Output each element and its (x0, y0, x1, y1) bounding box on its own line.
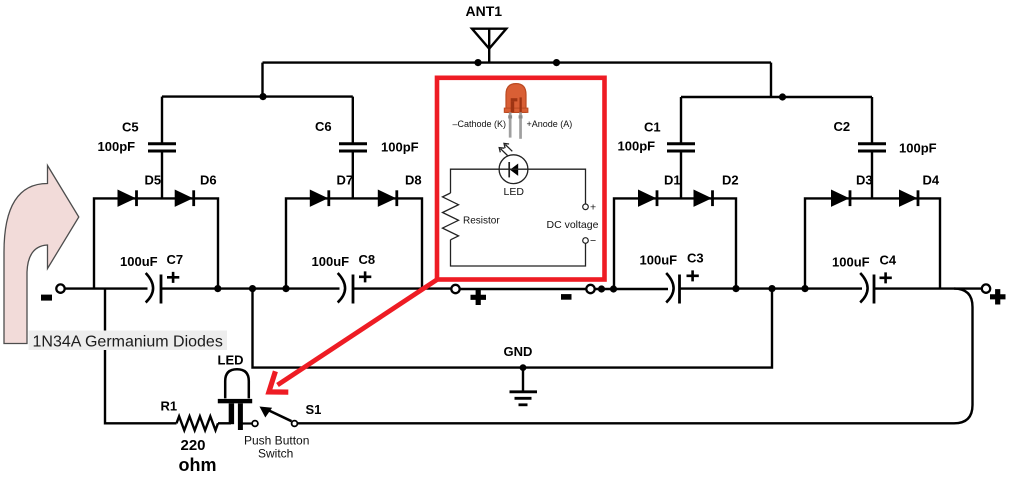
diode D7 (310, 173, 353, 207)
cell 4 frame wires (805, 198, 940, 288)
node rail 601 (598, 285, 605, 292)
svg-text:Push Button: Push Button (244, 434, 309, 448)
capacitor C4 (832, 253, 897, 304)
svg-text:D8: D8 (405, 173, 422, 188)
inset: resistor (443, 193, 501, 240)
node on top rail right (553, 59, 560, 66)
svg-text:D6: D6 (200, 173, 217, 188)
svg-text:DC voltage: DC voltage (547, 219, 599, 231)
red callout box (437, 78, 605, 280)
node rail 805 (801, 285, 808, 292)
svg-text:D2: D2 (722, 173, 739, 188)
diode D1 (639, 173, 681, 207)
svg-text:−: − (590, 235, 596, 247)
inset: LED symbol (499, 143, 528, 198)
svg-text:100uF: 100uF (312, 254, 350, 269)
diode D5 (118, 173, 161, 207)
node right feed (779, 93, 786, 100)
cell 1 frame wires (94, 198, 218, 288)
LED (indicator) (218, 353, 253, 431)
terminal mid plus (451, 285, 486, 305)
cell 3 frame wires (614, 198, 736, 288)
svg-text:–Cathode (K): –Cathode (K) (453, 119, 507, 129)
inset: DC voltage port (547, 202, 599, 248)
node rail 286 (282, 285, 289, 292)
svg-text:D3: D3 (856, 173, 873, 188)
node on top rail left (474, 59, 481, 66)
diode D3 (832, 173, 873, 207)
capacitor C1 (618, 97, 696, 198)
svg-text:C5: C5 (122, 120, 139, 135)
svg-text:+Anode (A): +Anode (A) (527, 119, 573, 129)
node rail 252 (249, 285, 256, 292)
pink block arrow (4, 166, 79, 344)
svg-text:C2: C2 (834, 119, 851, 134)
svg-text:100uF: 100uF (832, 255, 870, 270)
svg-text:100pF: 100pF (381, 140, 419, 155)
svg-text:C7: C7 (167, 252, 184, 267)
svg-text:220: 220 (181, 437, 206, 454)
svg-text:C6: C6 (315, 119, 332, 134)
diode D6 (175, 173, 216, 207)
capacitor C8 (312, 252, 376, 304)
svg-text:ANT1: ANT1 (466, 3, 503, 19)
svg-text:1N34A Germanium Diodes: 1N34A Germanium Diodes (33, 334, 223, 351)
switch S1 (244, 402, 321, 461)
wire right feed (681, 96, 872, 98)
highlight 1N34A note (29, 331, 228, 351)
capacitor C3 (640, 251, 704, 304)
svg-text:100pF: 100pF (899, 141, 937, 156)
svg-text:100uF: 100uF (640, 253, 678, 268)
ground symbol (504, 344, 538, 405)
svg-text:C1: C1 (644, 120, 661, 135)
svg-text:+: + (590, 202, 596, 214)
terminal mid minus (561, 285, 595, 297)
svg-text:100pF: 100pF (98, 139, 136, 154)
inset: LED component photo (453, 84, 573, 139)
cell 2 frame wires (286, 198, 422, 288)
svg-text:LED: LED (504, 186, 525, 198)
svg-text:ohm: ohm (179, 455, 217, 475)
svg-text:S1: S1 (306, 402, 322, 417)
bottom rail segments (65, 287, 148, 289)
diode D8 (378, 173, 421, 207)
svg-text:100uF: 100uF (120, 254, 158, 269)
red arrow to LED (269, 280, 437, 393)
svg-text:D5: D5 (145, 173, 162, 188)
svg-text:GND: GND (504, 344, 533, 359)
node rail 736 (732, 285, 739, 292)
svg-text:D4: D4 (923, 173, 940, 188)
antenna ANT1 (466, 3, 507, 63)
svg-text:D7: D7 (337, 173, 354, 188)
terminal right plus (982, 284, 1006, 304)
wire GND branch (253, 289, 773, 368)
capacitor C2 (834, 97, 937, 198)
svg-text:R1: R1 (161, 399, 178, 414)
svg-text:C3: C3 (687, 251, 704, 266)
wire bottom-left loop (105, 289, 177, 424)
svg-text:D1: D1 (664, 173, 681, 188)
svg-text:LED: LED (218, 353, 244, 368)
svg-text:Switch: Switch (258, 447, 293, 461)
capacitor C7 (120, 252, 183, 304)
svg-text:Resistor: Resistor (463, 216, 500, 227)
svg-text:100pF: 100pF (618, 139, 656, 154)
node GND (520, 364, 527, 371)
wire right riser to top rail (770, 63, 772, 97)
diode D4 (900, 173, 940, 207)
svg-text:C4: C4 (880, 253, 897, 268)
capacitor C5 (98, 97, 177, 199)
node rail 613 (610, 285, 617, 292)
terminal left minus (41, 284, 65, 297)
wire resistor to LED (218, 422, 231, 424)
capacitor C6 (315, 97, 419, 199)
node left feed (259, 93, 266, 100)
resistor R1 (161, 399, 218, 476)
wire top rail (263, 61, 772, 63)
wire left riser to top rail (261, 63, 263, 97)
svg-text:C8: C8 (359, 252, 376, 267)
diode D2 (694, 173, 739, 207)
wire bottom return (298, 289, 973, 424)
node rail 217 (214, 285, 221, 292)
node rail 772 (768, 285, 775, 292)
inset: bottom wire (451, 240, 586, 266)
inset: wires (451, 169, 529, 193)
wire left feed (162, 95, 353, 97)
